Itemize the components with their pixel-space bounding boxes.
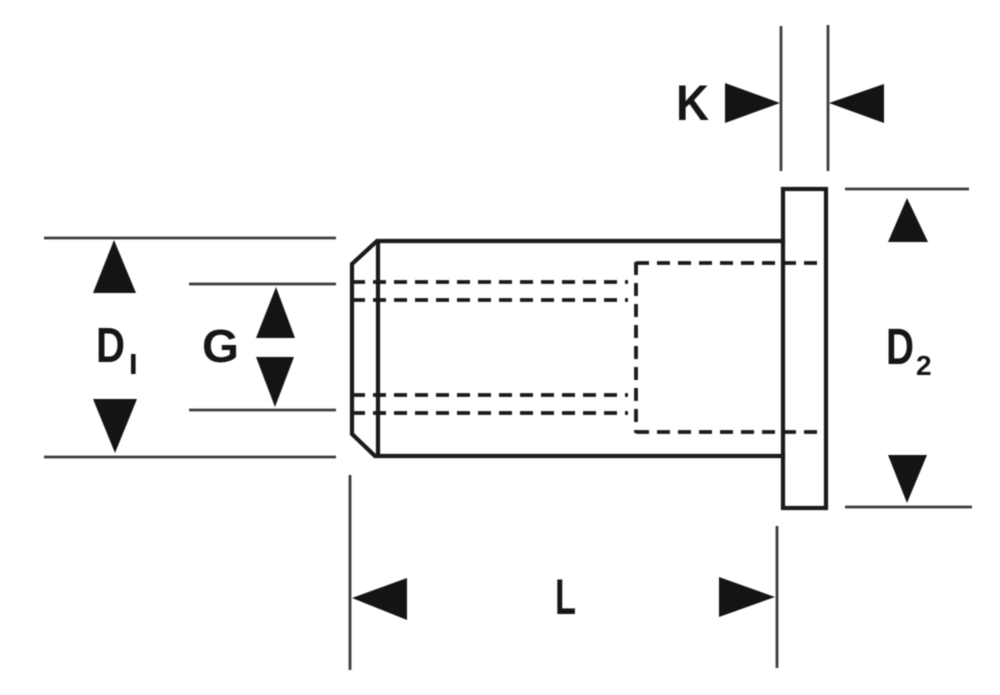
svg-text:D: D: [886, 318, 914, 375]
dimension D1 top extension line: [44, 237, 336, 240]
hidden thread line upper B: [352, 298, 628, 302]
dimension D2 top extension line: [845, 188, 969, 191]
G arrow down: [256, 357, 294, 407]
dimension G bottom extension line: [189, 409, 336, 412]
dimension D2 bottom extension line: [845, 506, 972, 509]
hidden thread line lower A: [352, 393, 628, 397]
dimension L right extension line: [776, 526, 779, 668]
dimension L left extension line: [349, 475, 352, 670]
hidden bore back wall (vertical dashed): [634, 262, 638, 433]
dimension K right extension line: [827, 25, 830, 171]
dimension G top extension line: [189, 283, 336, 286]
D1 arrow down: [93, 399, 137, 453]
K arrow right: [725, 83, 780, 123]
svg-text:G: G: [202, 320, 239, 372]
hidden bore top line: [636, 261, 824, 265]
svg-text:D: D: [96, 319, 125, 373]
chamfer tangent line: [376, 241, 380, 456]
L arrow right: [719, 577, 775, 617]
D1 arrow up: [93, 240, 136, 293]
body outline (rivet nut shank with chamfered blind end): [352, 241, 783, 456]
G arrow up: [256, 287, 295, 338]
svg-text:L: L: [555, 569, 576, 625]
svg-text:K: K: [676, 75, 709, 131]
D2 arrow up: [888, 198, 928, 242]
D2 arrow down: [888, 455, 927, 503]
K arrow left: [829, 84, 884, 123]
hidden thread line lower B: [352, 411, 628, 415]
dimension K left extension line: [780, 26, 783, 171]
dimension D1 bottom extension line: [44, 456, 336, 459]
flange: [783, 189, 826, 508]
svg-text:2: 2: [916, 350, 932, 381]
L arrow left: [352, 578, 407, 620]
hidden bore bottom line: [636, 430, 824, 434]
hidden thread line upper A: [352, 280, 628, 284]
